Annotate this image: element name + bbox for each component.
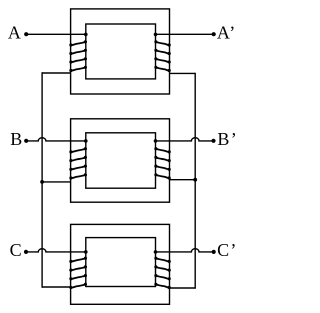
junction left neutral / T2 — [40, 180, 44, 184]
wire T2 left winding bottom to left neutral — [42, 181, 71, 183]
terminal A' — [212, 32, 216, 36]
transformer T2 core — [71, 119, 170, 202]
node C label — [10, 240, 22, 260]
wire B to T2 left winding (hops left neutral) — [26, 138, 86, 141]
svg-text:C: C — [10, 240, 22, 260]
wire T3 left winding bottom to left neutral — [42, 286, 71, 288]
wire A' to T1 right winding — [156, 33, 214, 35]
transformer T3 core — [71, 224, 170, 304]
winding T2 left (phase B) — [69, 139, 87, 180]
wire T3 right winding bottom to right neutral — [170, 287, 196, 289]
svg-text:B’: B’ — [217, 129, 236, 149]
svg-text:C’: C’ — [217, 240, 236, 260]
wire B' to T2 right winding (hops right neutral) — [156, 138, 214, 141]
node C' label — [217, 240, 236, 260]
terminal B — [24, 139, 28, 143]
wire left neutral vertical — [41, 72, 43, 287]
wire T1 left winding bottom to left neutral — [42, 72, 71, 74]
wire C to T3 left winding (hops left neutral) — [26, 249, 86, 252]
node A label — [8, 23, 21, 43]
svg-text:A: A — [8, 23, 21, 43]
transformer T1 core — [71, 9, 170, 94]
terminal B' — [211, 139, 215, 143]
wire right neutral vertical — [194, 73, 196, 289]
node B label — [10, 129, 22, 149]
winding T3 right (phase C’) — [154, 250, 171, 289]
terminal A — [24, 32, 28, 36]
junction right neutral / T2 — [193, 178, 197, 182]
winding T1 right (phase A’) — [154, 33, 171, 72]
winding T3 left (phase C) — [69, 250, 87, 289]
terminal C — [24, 250, 28, 254]
wire A to T1 left winding — [26, 33, 86, 35]
node B' label — [217, 129, 236, 149]
winding T2 right (phase B’) — [154, 139, 171, 180]
node A' label — [217, 23, 235, 43]
winding T1 left (phase A) — [69, 33, 87, 72]
svg-text:B: B — [10, 129, 22, 149]
wire T1 right winding bottom to right neutral — [170, 72, 196, 74]
wire T2 right winding bottom to right neutral — [170, 179, 196, 181]
terminal C' — [212, 250, 216, 254]
wire C' to T3 right winding (hops right neutral) — [156, 249, 214, 252]
svg-text:A’: A’ — [217, 23, 235, 43]
